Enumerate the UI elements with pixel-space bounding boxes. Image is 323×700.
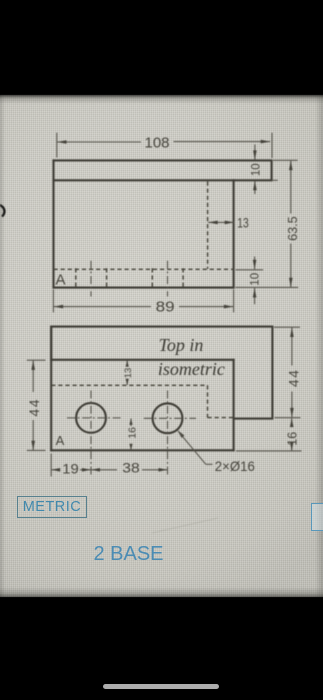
paper grain (0, 95, 323, 597)
title 2 BASE (0, 543, 257, 566)
plan view: hidden wall step horizontal (208, 417, 234, 419)
dimension 44 (plan left, body depth) (26, 360, 45, 450)
hole 2 center lines (144, 417, 196, 419)
dimension 16 (plan, hole center to front edge) (126, 419, 138, 451)
front view: hidden edge horizontal (top of base pad) (54, 268, 234, 270)
hole 2 circle (153, 403, 183, 433)
svg-text:44: 44 (285, 369, 301, 388)
svg-text:16: 16 (285, 432, 299, 446)
svg-text:isometric: isometric (158, 359, 225, 379)
front view: top flange outline (108 x 10) (54, 160, 272, 180)
photographed page background (0, 95, 323, 597)
svg-text:13: 13 (237, 214, 249, 230)
svg-text:A: A (56, 433, 65, 448)
METRIC box (17, 496, 87, 518)
dimension 16 (plan right, overhang) (236, 418, 302, 451)
front view: body left edge (52, 160, 54, 287)
dimension 38 (hole spacing) (91, 461, 167, 476)
hole 1 center lines (67, 417, 123, 419)
dimension 89 (body width, front view bottom) (53, 290, 233, 316)
faint scratch (152, 518, 218, 533)
svg-text:108: 108 (144, 135, 169, 152)
svg-text:10: 10 (250, 273, 262, 286)
home indicator (103, 684, 219, 689)
svg-text:38: 38 (122, 461, 140, 476)
dimension 19 (hole 1 position) (51, 454, 91, 477)
front view: hole 1 center line (90, 261, 92, 297)
callout 2xD16 leader (177, 430, 255, 474)
dimension 44 (plan right, flange depth) (274, 327, 301, 418)
front view: body bottom edge (54, 287, 234, 289)
front view: hidden edge vertical (wall, 13 from right) (207, 182, 209, 269)
svg-text:Top in: Top in (159, 335, 204, 355)
svg-text:89: 89 (156, 300, 175, 316)
plan view: hidden wall step vertical (207, 385, 209, 417)
plan view: body right edge (233, 360, 235, 451)
svg-text:2×Ø16: 2×Ø16 (215, 458, 255, 474)
dimension 63.5 (overall height, front view right) (236, 160, 300, 287)
front view: hole 2 center line (167, 261, 169, 297)
svg-text:16: 16 (126, 427, 138, 439)
svg-text:63.5: 63.5 (286, 216, 300, 241)
plan view: body front (bottom) edge (51, 449, 233, 451)
binding mark on left page edge (0, 205, 4, 217)
dimension 13 (plan, wall thickness) (123, 361, 134, 386)
dimension 10 (flange thickness, front view) (251, 145, 278, 195)
front view: hole 1 hidden edges (75, 268, 77, 287)
svg-text:A: A (55, 272, 65, 289)
front view: hole 2 hidden edges (151, 268, 153, 287)
dimension 108 (front view top) (57, 133, 272, 158)
partial blue box at right page edge (311, 503, 323, 531)
hole 1 circle (76, 403, 106, 433)
svg-text:10: 10 (251, 163, 263, 176)
dimension 10 (base pad height, front view bottom right) (236, 257, 264, 305)
svg-text:19: 19 (62, 462, 79, 477)
svg-text:13: 13 (123, 368, 134, 379)
front view: body right edge (233, 180, 235, 287)
plan view: body back edge (51, 359, 233, 361)
plan view: left edge of body (50, 327, 52, 451)
plan view: flange outline (51, 327, 272, 419)
plan view: hidden wall back edge (51, 384, 207, 386)
svg-text:44: 44 (26, 398, 42, 417)
dimension 13 (wall thickness, front view) (208, 214, 249, 230)
